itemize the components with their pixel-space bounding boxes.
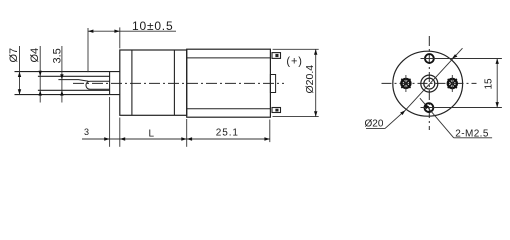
svg-text:Ø20.4: Ø20.4	[304, 65, 316, 94]
right view vertical centerline	[428, 36, 430, 130]
shaft flat line	[58, 80, 88, 82]
ext line motor rear bottom	[269, 120, 271, 143]
arrow L right	[181, 137, 186, 140]
arrow 10 left	[88, 30, 93, 33]
ext line right of 10 dim	[119, 27, 121, 48]
left hole cross	[401, 79, 410, 88]
ext line motor bottom right	[273, 116, 319, 118]
ext line boss front bottom	[109, 97, 111, 147]
terminal bottom hole	[275, 109, 278, 112]
dim line 3.5	[61, 46, 63, 103]
right view horizontal centerline	[382, 82, 477, 84]
arrow 3.5 top	[60, 74, 63, 79]
shaft O4 top	[38, 75, 110, 77]
svg-text:3: 3	[84, 127, 89, 137]
svg-text:L: L	[149, 129, 155, 140]
arrow O4 top	[39, 71, 42, 76]
right hole vertical tick	[451, 75, 453, 92]
dim line O20.4	[315, 49, 317, 116]
svg-text:Ø7: Ø7	[8, 48, 20, 63]
arrow 10 right	[114, 30, 119, 33]
svg-text:Ø4: Ø4	[29, 48, 41, 63]
right hole	[448, 79, 457, 88]
gearbox body	[120, 50, 187, 115]
center boss circle	[421, 75, 438, 92]
arrow O7 bottom	[18, 89, 21, 94]
arrow O20.4 top	[314, 49, 317, 54]
dim line O4	[39, 46, 41, 103]
left hole vertical tick	[405, 75, 407, 92]
boss front face	[109, 72, 111, 95]
svg-text:25.1: 25.1	[216, 128, 239, 139]
center shaft circle	[424, 78, 435, 89]
O20 underline	[366, 128, 385, 130]
arrow 3 right-point	[104, 137, 109, 140]
gearbox rear plate line	[173, 50, 175, 115]
gearbox front plate line	[131, 50, 133, 115]
2-M2.5 underline	[454, 137, 492, 139]
top hole	[425, 54, 434, 63]
dim line 10	[88, 30, 176, 32]
terminal top hole	[275, 54, 278, 57]
svg-text:15: 15	[484, 78, 495, 90]
motor can top line	[187, 57, 271, 59]
bottom hole	[425, 103, 434, 112]
top hole tick and ext line 15	[421, 58, 502, 60]
arrow O4 bottom	[39, 90, 42, 95]
arrow L left	[120, 137, 125, 140]
ext line left of 10 dim	[87, 28, 89, 72]
dim line 15	[496, 59, 498, 108]
arrow 15 bottom	[496, 102, 499, 107]
right hole cross	[448, 79, 457, 88]
bottom hole tick and ext line 15	[421, 107, 502, 109]
shaft flat slot outline	[86, 81, 110, 89]
shaft O7 boss outline bottom	[15, 94, 120, 96]
shaft O7 boss outline top	[15, 71, 120, 73]
motor can bottom line	[187, 108, 271, 110]
terminal bottom	[272, 108, 281, 113]
shaft O4 bottom	[38, 89, 110, 91]
arrow O20.4 bottom	[314, 111, 317, 116]
motor rear boss	[270, 75, 275, 93]
arrow 25.1 right	[264, 137, 269, 140]
arrow O7 top	[18, 72, 21, 77]
O20 arrow upper	[452, 54, 458, 58]
ext line gearbox front bottom	[119, 118, 121, 147]
ext line interface bottom	[186, 119, 188, 147]
O20 leader	[385, 48, 463, 128]
centerline main axis	[73, 82, 284, 84]
arrow 25.1 left	[187, 137, 192, 140]
bottom dim line	[82, 138, 270, 140]
right view outer circle	[393, 51, 463, 116]
2-M2.5 leader	[420, 98, 454, 138]
arrow 15 top	[496, 59, 499, 64]
2-M2.5 arrow	[425, 104, 430, 110]
ext line motor top right	[273, 48, 319, 50]
dim line O7	[19, 46, 21, 95]
terminal top	[272, 53, 281, 59]
arrow 3.5 bottom	[60, 90, 63, 95]
svg-text:Ø20: Ø20	[365, 119, 384, 130]
svg-text:(+): (+)	[286, 55, 302, 67]
O20 arrow lower	[400, 110, 405, 115]
left hole	[401, 79, 410, 88]
motor body	[187, 49, 271, 117]
